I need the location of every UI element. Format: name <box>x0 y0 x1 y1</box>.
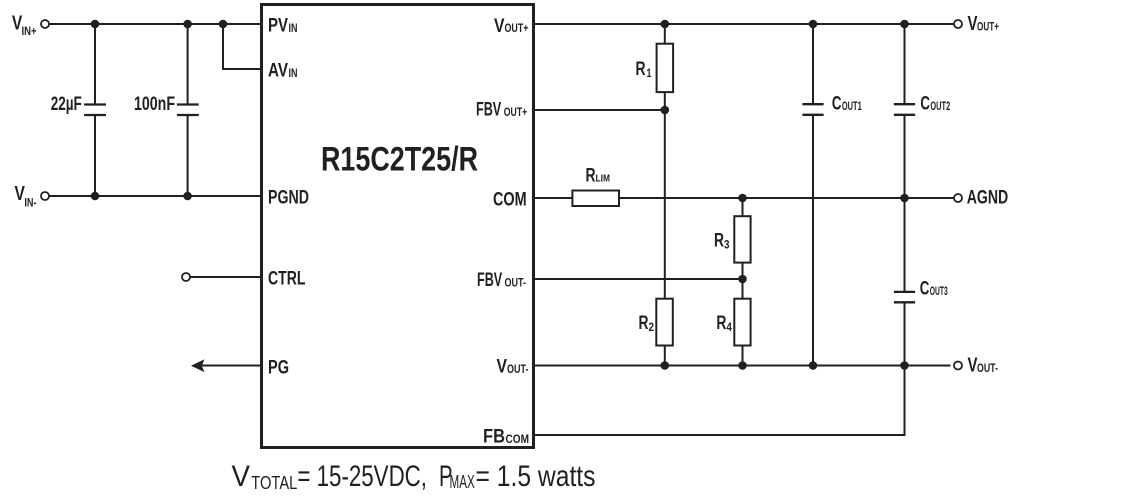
svg-text:R: R <box>714 229 724 251</box>
svg-text:IN-: IN- <box>24 198 36 210</box>
svg-text:CTRL: CTRL <box>268 267 306 289</box>
svg-text:R: R <box>636 58 646 80</box>
svg-text:FBV: FBV <box>476 98 501 120</box>
svg-text:2: 2 <box>649 322 655 334</box>
svg-text:OUT-: OUT- <box>505 278 527 290</box>
svg-text:IN+: IN+ <box>22 26 37 38</box>
svg-text:PV: PV <box>268 15 288 37</box>
svg-text:4: 4 <box>726 322 732 334</box>
svg-text:IN: IN <box>289 68 298 80</box>
svg-text:R15C2T25/R: R15C2T25/R <box>321 141 478 179</box>
svg-text:OUT+: OUT+ <box>504 107 528 119</box>
svg-text:COM: COM <box>493 189 527 211</box>
svg-text:OUT2: OUT2 <box>930 101 950 113</box>
svg-text:V: V <box>497 356 508 378</box>
svg-text:IN: IN <box>289 23 298 35</box>
svg-text:COM: COM <box>506 434 530 446</box>
svg-text:100nF: 100nF <box>134 93 175 115</box>
svg-text:FBV: FBV <box>477 269 502 291</box>
svg-text:= 1.5 watts: = 1.5 watts <box>476 460 596 493</box>
svg-text:C: C <box>920 278 930 300</box>
svg-text:OUT+: OUT+ <box>977 22 999 34</box>
svg-text:1: 1 <box>647 68 652 80</box>
svg-text:AGND: AGND <box>967 187 1009 209</box>
svg-text:LIM: LIM <box>596 173 611 185</box>
svg-text:OUT1: OUT1 <box>842 101 862 113</box>
svg-text:C: C <box>832 93 842 115</box>
svg-text:OUT+: OUT+ <box>505 23 529 35</box>
svg-text:MAX: MAX <box>450 471 475 492</box>
svg-text:PG: PG <box>268 356 289 378</box>
svg-text:PGND: PGND <box>268 186 309 208</box>
svg-text:V: V <box>494 15 505 37</box>
svg-text:R: R <box>639 312 649 334</box>
svg-text:3: 3 <box>724 240 730 252</box>
svg-text:22µF: 22µF <box>51 93 82 115</box>
svg-text:C: C <box>920 93 930 115</box>
svg-text:OUT-: OUT- <box>507 364 529 376</box>
svg-text:OUT-: OUT- <box>977 363 998 375</box>
svg-text:TOTAL: TOTAL <box>251 472 297 493</box>
svg-text:V: V <box>232 460 251 493</box>
svg-text:R: R <box>716 312 726 334</box>
svg-text:R: R <box>586 165 596 187</box>
svg-text:= 15-25VDC,: = 15-25VDC, <box>297 460 427 493</box>
svg-text:OUT3: OUT3 <box>930 286 948 298</box>
svg-text:FB: FB <box>483 426 505 448</box>
svg-text:AV: AV <box>268 60 288 82</box>
